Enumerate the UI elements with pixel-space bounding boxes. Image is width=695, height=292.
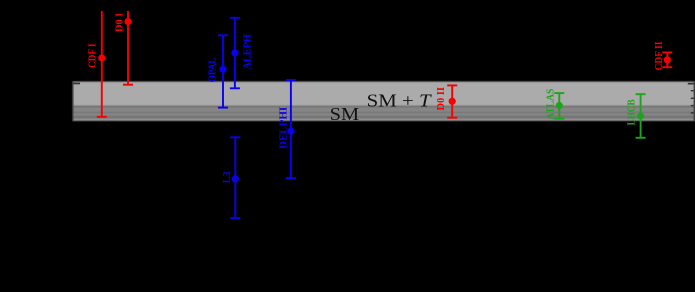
label OPAL: [207, 57, 218, 82]
left major tick: [74, 83, 81, 85]
band SM+T lower edge line: [73, 117, 695, 119]
label SM + T: [367, 91, 433, 111]
SM central value line: [73, 112, 695, 113]
data point LHCb: [636, 94, 646, 138]
label D0 I: [115, 13, 126, 32]
svg-text:DELPHI: DELPHI: [279, 107, 290, 149]
data point ATLAS: [554, 93, 564, 119]
svg-text:SM + T: SM + T: [367, 91, 433, 111]
svg-text:D0 I: D0 I: [115, 13, 126, 32]
svg-text:ATLAS: ATLAS: [545, 88, 556, 119]
right minor tick 3: [691, 105, 694, 106]
data point D0 I: [123, 11, 133, 85]
data point ALEPH: [230, 18, 240, 89]
label CDF I: [88, 43, 99, 68]
band SM (darker overlap region): [73, 106, 695, 112]
label L3: [222, 172, 233, 184]
svg-text:LHCB: LHCB: [627, 99, 638, 125]
right minor tick 1: [691, 90, 694, 91]
band SM only strip at bottom: [73, 119, 695, 121]
svg-text:D0 II: D0 II: [436, 87, 447, 110]
left axis spine: [72, 81, 73, 121]
data point L3: [230, 137, 240, 218]
data point OPAL: [218, 35, 228, 107]
label ATLAS: [545, 88, 556, 119]
right major tick: [688, 83, 694, 85]
label D0 II: [436, 87, 447, 110]
right minor tick 4: [691, 112, 694, 113]
right minor tick 2: [691, 98, 694, 99]
right axis spine: [694, 81, 695, 121]
data point CDF I: [97, 11, 107, 117]
svg-text:CDF II: CDF II: [654, 42, 665, 71]
svg-text:L3: L3: [222, 172, 233, 184]
band SM lower overlap: [73, 113, 695, 117]
data point DELPHI: [286, 80, 296, 178]
band SM+T (light gray, 1-sigma region): [73, 81, 695, 105]
label DELPHI: [279, 107, 290, 149]
label CDF II: [654, 42, 665, 71]
label SM: [330, 104, 360, 124]
label LHCb: [627, 99, 638, 125]
data point CDF II: [662, 52, 672, 67]
svg-text:OPAL: OPAL: [207, 57, 218, 82]
svg-text:SM: SM: [330, 104, 360, 124]
svg-text:ALEPH: ALEPH: [243, 34, 254, 69]
label ALEPH: [243, 34, 254, 69]
data point D0 II: [447, 85, 457, 117]
svg-text:CDF I: CDF I: [88, 43, 99, 68]
